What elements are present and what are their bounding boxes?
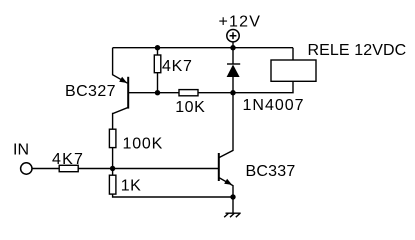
svg-text:10K: 10K [175,99,205,116]
svg-text:1K: 1K [121,177,142,194]
svg-text:BC337: BC337 [246,163,296,180]
svg-text:1N4007: 1N4007 [243,97,305,114]
svg-text:4K7: 4K7 [52,151,84,168]
svg-text:BC327: BC327 [65,83,116,100]
svg-text:IN: IN [13,142,29,159]
svg-text:100K: 100K [123,136,164,153]
svg-text:+12V: +12V [219,14,262,31]
svg-text:RELE 12VDC: RELE 12VDC [308,42,407,59]
svg-text:4K7: 4K7 [162,58,193,75]
